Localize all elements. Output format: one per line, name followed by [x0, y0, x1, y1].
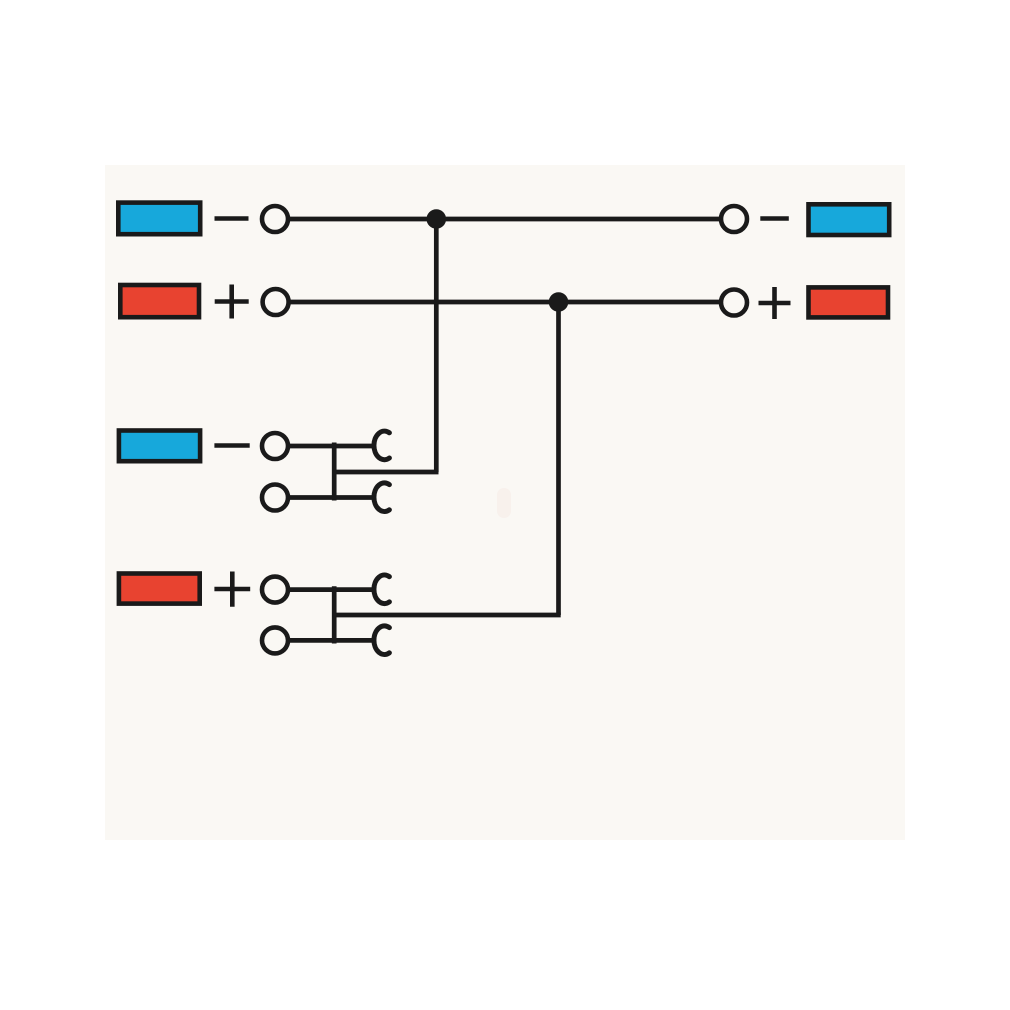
- marker: blue ferrule, top-left negative terminal: [118, 203, 200, 235]
- terminal: clamp circle, fork 1 upper: [262, 433, 288, 459]
- marker: red ferrule, fork group 2: [119, 574, 200, 604]
- artifact: faint watermark smudge: [497, 488, 511, 518]
- contact: spring clamp jaw, fork 2 lower: [374, 626, 389, 655]
- marker: red ferrule, left positive terminal: [120, 285, 199, 317]
- terminal: clamp circle, fork 2 lower: [262, 627, 288, 653]
- label: minus sign, top-right: [760, 216, 789, 221]
- label: plus sign, row 2 right: [759, 287, 791, 319]
- marker: blue ferrule, fork group 1: [119, 431, 200, 462]
- wire: fork 1 mid line to vertical drop: [334, 470, 438, 475]
- marker: blue ferrule, top-right negative terminal: [809, 204, 890, 235]
- terminal: clamp circle, fork 2 upper: [262, 577, 288, 603]
- wire: fork 1 lower lead: [289, 495, 373, 500]
- wire: vertical drop from node A to fork 1 mid line: [434, 219, 439, 472]
- wire: vertical drop from node B to fork 2 mid line: [556, 302, 561, 615]
- label: minus sign, top-left: [215, 216, 249, 221]
- wire: fork 2 mid line to vertical drop: [334, 613, 561, 618]
- terminal: clamp circle, row 2 left: [263, 289, 289, 315]
- wire: fork 2 lower lead: [289, 638, 373, 643]
- node A: junction dot on negative rail: [427, 209, 447, 229]
- contact: spring clamp jaw, fork 1 upper: [374, 431, 389, 460]
- label: plus sign, row 2 left: [215, 285, 249, 319]
- terminal: clamp circle, row 2 right: [721, 290, 747, 316]
- wire: top negative rail (left terminal to right terminal): [289, 217, 720, 222]
- diagram background panel: [105, 165, 905, 840]
- wire: fork 1 upper lead: [289, 444, 373, 449]
- marker: red ferrule, right positive terminal: [809, 287, 889, 317]
- contact: spring clamp jaw, fork 1 lower: [374, 483, 389, 512]
- label: plus sign, fork group 2: [214, 572, 250, 607]
- terminal: clamp circle, top-left: [262, 206, 288, 232]
- terminal: clamp circle, fork 1 lower: [262, 485, 288, 511]
- wire: fork 1 vertical tie bar: [332, 443, 337, 501]
- wire: positive rail (left terminal to right terminal): [290, 300, 720, 305]
- contact: spring clamp jaw, fork 2 upper: [374, 575, 389, 604]
- wire: fork 2 vertical tie bar: [332, 586, 337, 643]
- wire: fork 2 upper lead: [289, 587, 373, 592]
- terminal: clamp circle, top-right: [721, 206, 747, 232]
- label: minus sign, fork group 1: [214, 443, 249, 448]
- node B: junction dot on positive rail: [549, 292, 569, 312]
